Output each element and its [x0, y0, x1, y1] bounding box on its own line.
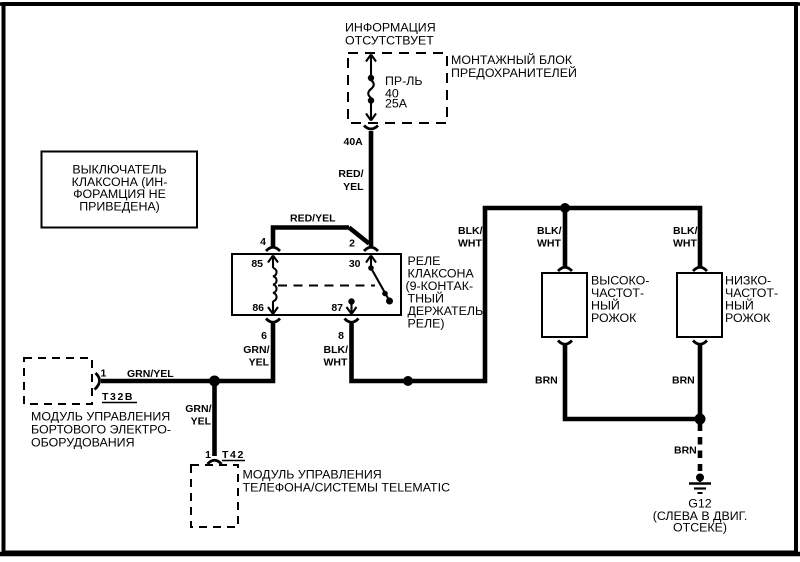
- svg-text:ОТСУТСТВУЕТ: ОТСУТСТВУЕТ: [345, 34, 434, 48]
- svg-text:BLK/: BLK/: [324, 344, 349, 356]
- svg-text:30: 30: [349, 258, 361, 270]
- svg-text:86: 86: [252, 302, 264, 314]
- svg-text:РЕЛЕ): РЕЛЕ): [408, 317, 445, 331]
- svg-text:РОЖОК: РОЖОК: [725, 311, 771, 325]
- svg-text:1: 1: [205, 449, 211, 461]
- svg-text:YEL: YEL: [191, 416, 212, 428]
- svg-text:YEL: YEL: [249, 357, 270, 369]
- svg-text:ПРЕДОХРАНИТЕЛЕЙ: ПРЕДОХРАНИТЕЛЕЙ: [451, 65, 577, 80]
- svg-text:ПРИВЕДЕНА): ПРИВЕДЕНА): [79, 199, 160, 213]
- svg-text:8: 8: [338, 330, 344, 342]
- svg-text:4: 4: [260, 236, 266, 248]
- svg-text:2: 2: [349, 238, 355, 250]
- svg-text:BRN: BRN: [535, 375, 558, 387]
- svg-text:85: 85: [251, 258, 263, 270]
- svg-text:МОДУЛЬ УПРАВЛЕНИЯ: МОДУЛЬ УПРАВЛЕНИЯ: [31, 410, 170, 424]
- svg-text:ИНФОРМАЦИЯ: ИНФОРМАЦИЯ: [345, 21, 436, 35]
- svg-text:RED/YEL: RED/YEL: [290, 213, 336, 225]
- svg-text:ТЕЛЕФОНА/СИСТЕМЫ TELEMATIC: ТЕЛЕФОНА/СИСТЕМЫ TELEMATIC: [243, 481, 451, 495]
- svg-text:GRN/: GRN/: [185, 403, 211, 415]
- svg-text:25А: 25А: [385, 97, 408, 111]
- svg-text:BLK/: BLK/: [537, 225, 562, 237]
- svg-text:YEL: YEL: [343, 181, 364, 193]
- svg-text:T32B: T32B: [102, 391, 134, 403]
- svg-text:БОРТОВОГО ЭЛЕКТРО-: БОРТОВОГО ЭЛЕКТРО-: [31, 423, 171, 437]
- svg-text:GRN/: GRN/: [243, 344, 269, 356]
- svg-text:1: 1: [101, 368, 107, 380]
- svg-text:BLK/: BLK/: [673, 225, 698, 237]
- svg-text:МОДУЛЬ УПРАВЛЕНИЯ: МОДУЛЬ УПРАВЛЕНИЯ: [243, 468, 382, 482]
- svg-text:GRN/YEL: GRN/YEL: [127, 368, 174, 380]
- svg-text:ОТСЕКЕ): ОТСЕКЕ): [673, 521, 727, 535]
- svg-text:WHT: WHT: [458, 238, 482, 250]
- svg-text:6: 6: [261, 330, 267, 342]
- svg-text:BLK/: BLK/: [458, 225, 483, 237]
- svg-text:BRN: BRN: [674, 445, 697, 457]
- svg-text:BRN: BRN: [672, 375, 695, 387]
- svg-text:ОБОРУДОВАНИЯ: ОБОРУДОВАНИЯ: [31, 436, 135, 450]
- svg-text:87: 87: [331, 302, 343, 314]
- svg-text:WHT: WHT: [673, 238, 697, 250]
- svg-text:WHT: WHT: [537, 238, 561, 250]
- svg-text:40A: 40A: [344, 136, 364, 148]
- svg-text:RED/: RED/: [338, 168, 363, 180]
- svg-text:МОНТАЖНЫЙ БЛОК: МОНТАЖНЫЙ БЛОК: [451, 52, 573, 67]
- svg-text:T42: T42: [222, 449, 245, 461]
- svg-text:WHT: WHT: [324, 357, 348, 369]
- svg-text:РОЖОК: РОЖОК: [591, 311, 637, 325]
